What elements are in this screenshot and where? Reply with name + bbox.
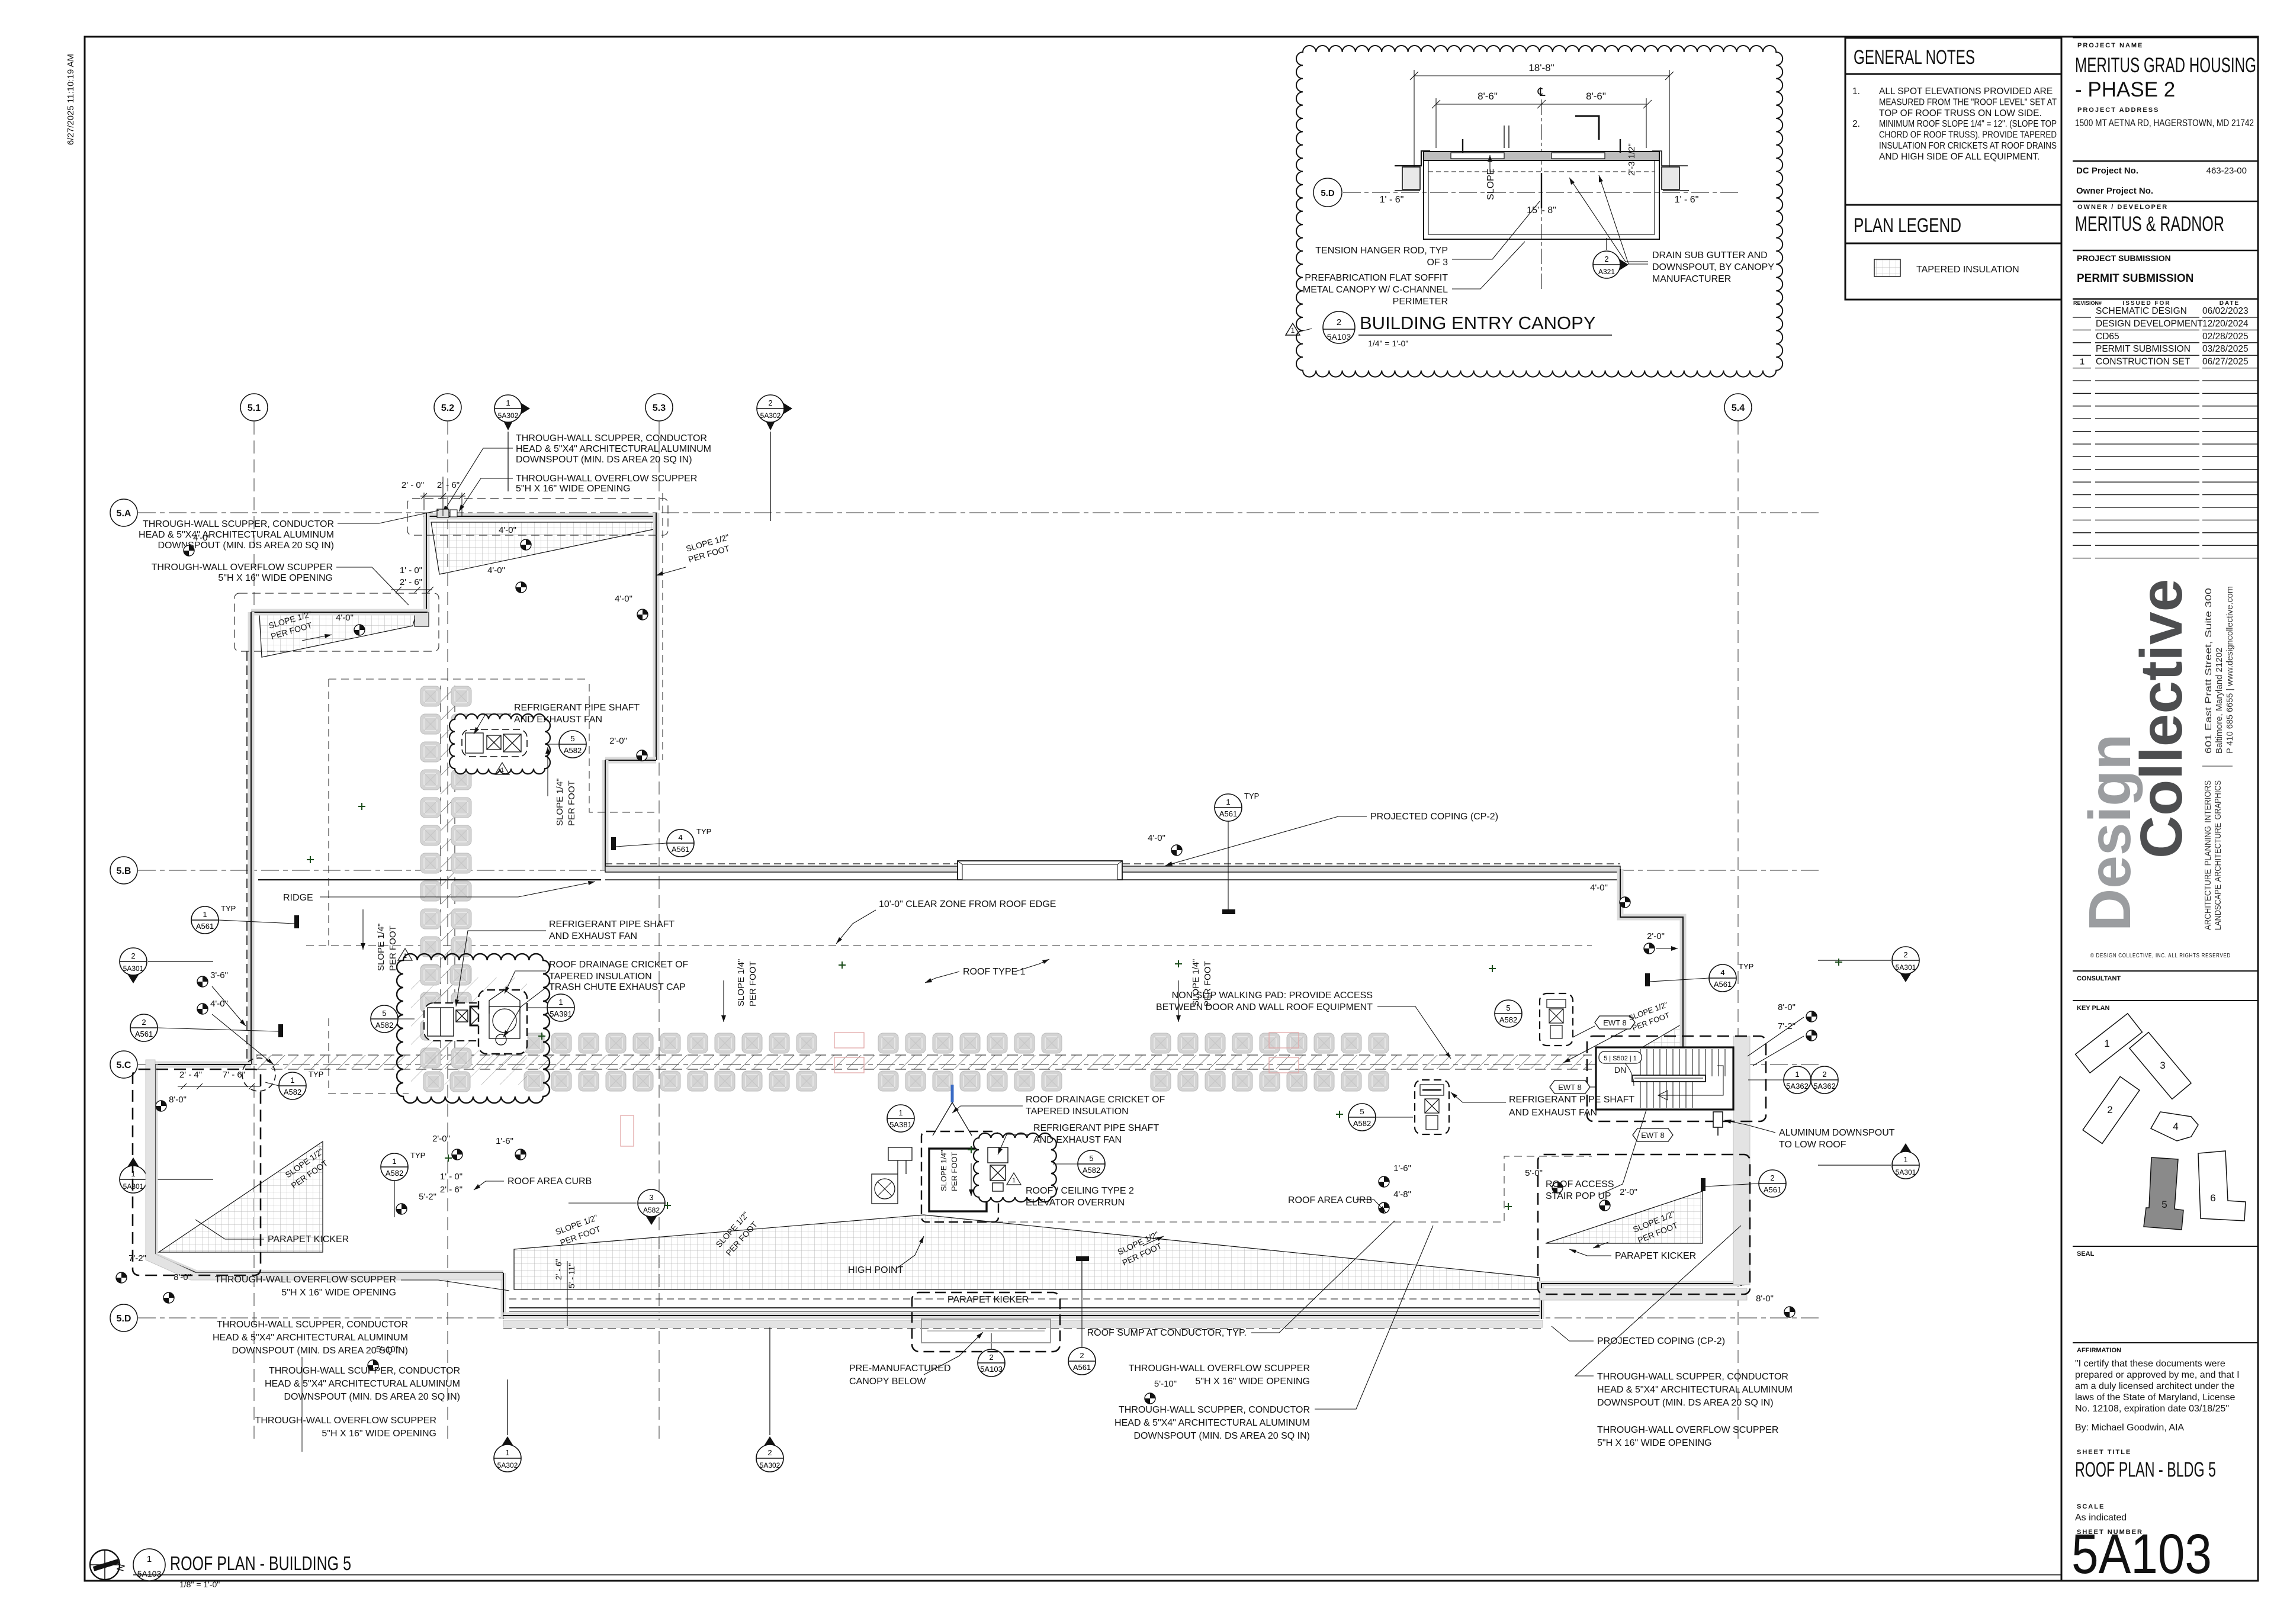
svg-text:2'-0": 2'-0" bbox=[1620, 1187, 1637, 1197]
marker 5/A582 right b bbox=[1348, 1104, 1376, 1131]
svg-text:Collective: Collective bbox=[2128, 579, 2195, 858]
scupper opening symbols on north wall bbox=[437, 509, 449, 517]
svg-text:4'-0": 4'-0" bbox=[1148, 833, 1165, 843]
markers 1/5A362 2/5A362 bbox=[1784, 1066, 1811, 1094]
svg-text:1: 1 bbox=[898, 1108, 902, 1117]
marker 2/A561 left bbox=[130, 1014, 158, 1041]
svg-text:ROOF / CEILING TYPE 2: ROOF / CEILING TYPE 2 bbox=[1026, 1186, 1134, 1196]
svg-text:HEAD & 5"X4" ARCHITECTURAL ALU: HEAD & 5"X4" ARCHITECTURAL ALUMINUM bbox=[516, 444, 711, 454]
canopy body outline bbox=[1424, 160, 1659, 239]
svg-text:8'-0": 8'-0" bbox=[1778, 1002, 1796, 1012]
canopy detail title bbox=[1323, 311, 1355, 343]
svg-text:5A302: 5A302 bbox=[760, 1461, 781, 1469]
svg-text:MERITUS GRAD HOUSING: MERITUS GRAD HOUSING bbox=[2075, 54, 2256, 77]
svg-text:SCHEMATIC DESIGN: SCHEMATIC DESIGN bbox=[2096, 306, 2187, 316]
svg-text:2: 2 bbox=[989, 1353, 993, 1362]
svg-text:As indicated: As indicated bbox=[2075, 1513, 2127, 1523]
svg-text:ROOF DRAINAGE CRICKET OF: ROOF DRAINAGE CRICKET OF bbox=[1026, 1095, 1165, 1105]
spot elevation 5'-10" bbox=[1145, 1393, 1155, 1404]
svg-text:A582: A582 bbox=[284, 1088, 301, 1096]
svg-text:DOWNSPOUT, BY CANOPY: DOWNSPOUT, BY CANOPY bbox=[1652, 262, 1774, 272]
spot elevation 5'-2" bbox=[396, 1204, 407, 1214]
parapet wall jog at NE wing bbox=[605, 757, 656, 764]
walking pad band horizontal bbox=[256, 1055, 1592, 1069]
parapet wall west of NE wing bbox=[423, 513, 430, 612]
svg-text:OF 3: OF 3 bbox=[1427, 258, 1448, 268]
svg-text:5A362: 5A362 bbox=[1813, 1082, 1836, 1091]
tapered insulation band south wing bbox=[514, 1215, 1540, 1289]
svg-text:4'-0": 4'-0" bbox=[615, 594, 632, 604]
svg-text:ALUMINUM DOWNSPOUT: ALUMINUM DOWNSPOUT bbox=[1779, 1128, 1895, 1138]
spot elevation 2'-0" bbox=[1599, 1200, 1610, 1211]
svg-text:06/27/2025: 06/27/2025 bbox=[2202, 357, 2249, 367]
svg-text:1.: 1. bbox=[1852, 86, 1860, 97]
svg-text:5A103: 5A103 bbox=[1327, 332, 1351, 342]
marker 1/A582 south bbox=[381, 1151, 425, 1181]
svg-text:LANDSCAPE ARCHITECTURE GRAPHI: LANDSCAPE ARCHITECTURE GRAPHICS bbox=[2213, 780, 2223, 930]
svg-text:ALL SPOT ELEVATIONS PROVIDED A: ALL SPOT ELEVATIONS PROVIDED ARE bbox=[1879, 86, 2053, 97]
svg-text:THROUGH-WALL SCUPPER, CONDUCTO: THROUGH-WALL SCUPPER, CONDUCTOR bbox=[1119, 1405, 1310, 1415]
elevator overrun bbox=[929, 1149, 987, 1211]
svg-text:EWT 8: EWT 8 bbox=[1603, 1018, 1627, 1027]
svg-text:PARAPET KICKER: PARAPET KICKER bbox=[1615, 1251, 1696, 1261]
svg-text:TOP OF ROOF TRUSS ON LOW SIDE.: TOP OF ROOF TRUSS ON LOW SIDE. bbox=[1879, 108, 2042, 118]
svg-text:DC Project No.: DC Project No. bbox=[2076, 166, 2138, 176]
tension hanger rods bbox=[1541, 173, 1542, 208]
svg-text:5A301: 5A301 bbox=[123, 964, 144, 973]
svg-text:PROJECT ADDRESS: PROJECT ADDRESS bbox=[2077, 107, 2159, 114]
svg-text:MEASURED FROM THE "ROOF LEVEL": MEASURED FROM THE "ROOF LEVEL" SET AT bbox=[1879, 98, 2057, 108]
svg-text:SLOPE: SLOPE bbox=[1486, 169, 1496, 200]
svg-text:No. 12108, expiration date 03/: No. 12108, expiration date 03/18/25" bbox=[2075, 1404, 2229, 1414]
svg-text:1' - 0": 1' - 0" bbox=[400, 565, 422, 575]
svg-text:TAPERED INSULATION: TAPERED INSULATION bbox=[1916, 265, 2019, 275]
slope 1/4 arrows vertical bbox=[547, 747, 548, 796]
svg-text:2: 2 bbox=[767, 1448, 772, 1457]
svg-text:A582: A582 bbox=[1083, 1166, 1100, 1175]
dashed coping line east of NE wing bbox=[662, 493, 663, 760]
bold dashed box SE wing bbox=[1538, 1155, 1750, 1294]
bold dashed box around stair bbox=[1587, 1036, 1766, 1121]
svg-text:1' - 6": 1' - 6" bbox=[1380, 195, 1404, 205]
svg-text:STAIR POP UP: STAIR POP UP bbox=[1546, 1191, 1611, 1201]
svg-text:1: 1 bbox=[147, 1554, 152, 1564]
svg-text:A582: A582 bbox=[643, 1206, 660, 1214]
parapet wall north of NE wing bbox=[423, 513, 656, 520]
title block bbox=[2061, 37, 2063, 1581]
title bubble 1/5A103 bbox=[133, 1549, 165, 1581]
east coping wide band bbox=[1733, 1036, 1750, 1285]
svg-text:5: 5 bbox=[1506, 1004, 1510, 1012]
svg-text:MANUFACTURER: MANUFACTURER bbox=[1652, 274, 1731, 284]
svg-text:4: 4 bbox=[678, 833, 682, 842]
revision table bbox=[2073, 298, 2258, 300]
svg-text:CANOPY BELOW: CANOPY BELOW bbox=[849, 1377, 926, 1387]
svg-text:8'-0": 8'-0" bbox=[174, 1272, 191, 1282]
svg-text:PER FOOT: PER FOOT bbox=[748, 961, 758, 1006]
svg-text:A561: A561 bbox=[1714, 980, 1732, 989]
svg-text:SLOPE 1/4": SLOPE 1/4" bbox=[939, 1150, 948, 1191]
section marker 1/5A302 bottom bbox=[494, 1436, 521, 1472]
svg-text:TAPERED INSULATION: TAPERED INSULATION bbox=[1026, 1107, 1129, 1117]
parapet wall SE step bbox=[1541, 1284, 1741, 1319]
svg-text:"I certify that these document: "I certify that these documents were bbox=[2075, 1359, 2225, 1369]
spot elevation 4'-0" bbox=[516, 582, 526, 593]
svg-text:TO LOW ROOF: TO LOW ROOF bbox=[1779, 1140, 1846, 1150]
svg-text:2: 2 bbox=[1770, 1173, 1774, 1182]
roof access stair pop up bbox=[1596, 1047, 1733, 1110]
svg-text:5A362: 5A362 bbox=[1786, 1082, 1809, 1091]
canopy deck band with hatch bbox=[1424, 152, 1659, 160]
svg-text:TYP: TYP bbox=[1244, 792, 1259, 800]
svg-text:A561: A561 bbox=[1764, 1185, 1781, 1194]
svg-text:DOWNSPOUT (MIN. DS AREA 20 SQ: DOWNSPOUT (MIN. DS AREA 20 SQ IN) bbox=[1133, 1431, 1310, 1441]
svg-text:SLOPE 1/4": SLOPE 1/4" bbox=[736, 959, 746, 1006]
svg-text:GENERAL NOTES: GENERAL NOTES bbox=[1854, 46, 1975, 69]
svg-text:1/8" = 1'-0": 1/8" = 1'-0" bbox=[179, 1580, 220, 1589]
svg-text:4: 4 bbox=[1720, 968, 1724, 977]
svg-text:TYP: TYP bbox=[221, 904, 236, 913]
svg-text:PROJECTED COPING (CP-2): PROJECTED COPING (CP-2) bbox=[1370, 812, 1498, 822]
marker 5/A582 upper bbox=[559, 731, 586, 758]
svg-text:PER FOOT: PER FOOT bbox=[388, 925, 398, 971]
spot elevation 8'-0" bbox=[156, 1101, 166, 1111]
svg-text:THROUGH-WALL SCUPPER, CONDUCTO: THROUGH-WALL SCUPPER, CONDUCTOR bbox=[516, 433, 707, 443]
svg-text:2: 2 bbox=[1080, 1351, 1084, 1360]
tapered insulation wedge NW-right bbox=[431, 522, 654, 574]
EWT 8 tag a bbox=[1595, 1016, 1635, 1029]
svg-text:HEAD & 5"X4" ARCHITECTURAL ALU: HEAD & 5"X4" ARCHITECTURAL ALUMINUM bbox=[139, 530, 334, 540]
svg-text:1: 1 bbox=[2080, 357, 2084, 367]
svg-text:1500 MT AETNA RD, HAGERSTOWN,: 1500 MT AETNA RD, HAGERSTOWN, MD 21742 bbox=[2075, 118, 2254, 128]
marker 1/A561 top bbox=[1215, 792, 1259, 821]
marker 5/A582 central bbox=[371, 1005, 398, 1033]
svg-text:601 East Pratt Street, Suite 3: 601 East Pratt Street, Suite 300 bbox=[2204, 588, 2214, 754]
svg-text:SHEET TITLE: SHEET TITLE bbox=[2077, 1449, 2131, 1456]
svg-text:2: 2 bbox=[2107, 1104, 2112, 1115]
svg-text:PLAN LEGEND: PLAN LEGEND bbox=[1854, 214, 1961, 237]
svg-text:5A391: 5A391 bbox=[550, 1009, 572, 1018]
svg-text:AND HIGH SIDE OF ALL EQUIPMENT: AND HIGH SIDE OF ALL EQUIPMENT. bbox=[1879, 152, 2040, 162]
svg-text:AFFIRMATION: AFFIRMATION bbox=[2077, 1347, 2121, 1354]
spot elevation 4'-0" bbox=[1620, 897, 1630, 908]
svg-text:2'-0": 2'-0" bbox=[1647, 931, 1665, 941]
svg-text:AND EXHAUST FAN: AND EXHAUST FAN bbox=[514, 715, 602, 725]
svg-text:5"H X 16" WIDE OPENING: 5"H X 16" WIDE OPENING bbox=[322, 1429, 436, 1439]
spot elevation 8'-0" bbox=[1784, 1307, 1795, 1317]
stair run arrow bbox=[1658, 1066, 1723, 1095]
svg-text:- PHASE 2: - PHASE 2 bbox=[2075, 78, 2175, 101]
marker 1/A582 SW bbox=[279, 1070, 323, 1099]
upper equipment cloud bbox=[449, 714, 550, 774]
svg-text:5.1: 5.1 bbox=[248, 403, 261, 413]
svg-text:TRASH CHUTE EXHAUST CAP: TRASH CHUTE EXHAUST CAP bbox=[549, 982, 686, 992]
svg-text:am a duly licensed architect u: am a duly licensed architect under the bbox=[2075, 1381, 2235, 1391]
svg-text:2' - 6": 2' - 6" bbox=[440, 1185, 462, 1195]
svg-text:4'-0": 4'-0" bbox=[210, 999, 228, 1009]
grid 5.D through detail bbox=[1343, 192, 1741, 193]
svg-text:1' - 6": 1' - 6" bbox=[1675, 195, 1699, 205]
revision delta 1 bbox=[1286, 323, 1300, 335]
svg-text:ROOF SUMP AT CONDUCTOR, TYP.: ROOF SUMP AT CONDUCTOR, TYP. bbox=[1087, 1328, 1247, 1338]
svg-text:1: 1 bbox=[1903, 1155, 1907, 1164]
svg-text:TAPERED INSULATION: TAPERED INSULATION bbox=[549, 972, 652, 982]
svg-text:DRAIN SUB GUTTER AND: DRAIN SUB GUTTER AND bbox=[1652, 250, 1768, 261]
svg-text:1: 1 bbox=[203, 910, 207, 919]
svg-text:02/28/2025: 02/28/2025 bbox=[2202, 332, 2249, 342]
svg-text:DN: DN bbox=[1614, 1065, 1626, 1075]
grid line 5.2 bbox=[447, 422, 448, 1445]
svg-text:NON-SLIP WALKING PAD: PROVIDE: NON-SLIP WALKING PAD: PROVIDE ACCESS bbox=[1172, 991, 1373, 1001]
svg-text:15' - 8": 15' - 8" bbox=[1527, 205, 1556, 216]
svg-text:A582: A582 bbox=[1499, 1015, 1517, 1024]
small wall symbols above deck bbox=[1504, 126, 1509, 148]
svg-text:5 | S502 | 1: 5 | S502 | 1 bbox=[1604, 1055, 1637, 1062]
parapet wall east of NE wing bbox=[653, 513, 660, 760]
svg-text:2: 2 bbox=[142, 1018, 146, 1027]
grid line 5.1 bbox=[253, 422, 255, 1445]
svg-text:THROUGH-WALL OVERFLOW SCUPPER: THROUGH-WALL OVERFLOW SCUPPER bbox=[1597, 1425, 1778, 1435]
svg-text:5'-10": 5'-10" bbox=[1154, 1379, 1177, 1389]
svg-text:5A301: 5A301 bbox=[1896, 963, 1916, 972]
svg-text:5.D: 5.D bbox=[1321, 188, 1335, 198]
svg-text:1: 1 bbox=[2104, 1038, 2109, 1049]
key plan building 3 bbox=[2130, 1033, 2191, 1099]
parapet wall SW wing bbox=[155, 1065, 503, 1273]
section marker 2/5A301 left bbox=[120, 948, 147, 983]
svg-text:4'-0": 4'-0" bbox=[1590, 883, 1608, 893]
section marker 1/5A301 left bbox=[120, 1157, 147, 1193]
svg-text:5A103: 5A103 bbox=[2071, 1523, 2212, 1586]
canopy roof/wall section at grid 5.D bbox=[1395, 151, 1689, 191]
svg-text:HEAD & 5"X4" ARCHITECTURAL ALU: HEAD & 5"X4" ARCHITECTURAL ALUMINUM bbox=[1114, 1418, 1310, 1428]
section marker 2/5A302 bottom bbox=[756, 1436, 783, 1472]
svg-text:A582: A582 bbox=[1353, 1119, 1371, 1128]
leader line to bottom marker SW bbox=[301, 1357, 303, 1452]
svg-text:TYP: TYP bbox=[410, 1151, 425, 1160]
svg-text:AND EXHAUST FAN: AND EXHAUST FAN bbox=[1509, 1108, 1597, 1118]
EWT 8 tag c bbox=[1633, 1128, 1673, 1141]
svg-text:MINIMUM ROOF SLOPE 1/4" = 12".: MINIMUM ROOF SLOPE 1/4" = 12". (SLOPE TO… bbox=[1879, 119, 2057, 129]
svg-text:DOWNSPOUT (MIN. DS AREA 20 SQ: DOWNSPOUT (MIN. DS AREA 20 SQ IN) bbox=[516, 455, 692, 465]
section marker 1/5A302 top bbox=[494, 395, 530, 430]
svg-text:12/20/2024: 12/20/2024 bbox=[2202, 319, 2249, 329]
svg-text:CD65: CD65 bbox=[2096, 332, 2119, 342]
marker 1/A561 far left bbox=[191, 904, 236, 934]
cricket pyramid at elevator bbox=[933, 1102, 972, 1136]
svg-text:TYP: TYP bbox=[696, 827, 711, 836]
svg-text:ROOF ACCESS: ROOF ACCESS bbox=[1546, 1179, 1614, 1189]
spot elevation 4'-0" bbox=[521, 539, 531, 550]
spot elevation 1'-6" bbox=[1379, 1176, 1389, 1187]
survey plus marks bbox=[307, 803, 1842, 1210]
svg-text:laws of the State of Maryland,: laws of the State of Maryland, License bbox=[2075, 1393, 2235, 1403]
key plan building 6 bbox=[2198, 1151, 2246, 1221]
svg-text:5.C: 5.C bbox=[117, 1060, 131, 1070]
svg-text:8'-6": 8'-6" bbox=[1586, 91, 1606, 102]
svg-text:5: 5 bbox=[570, 734, 574, 743]
svg-text:2: 2 bbox=[1822, 1070, 1826, 1079]
svg-text:5.3: 5.3 bbox=[653, 403, 666, 413]
tapered insulation wedge NW-left bbox=[259, 615, 416, 657]
svg-text:THROUGH-WALL SCUPPER, CONDUCTO: THROUGH-WALL SCUPPER, CONDUCTOR bbox=[1597, 1372, 1788, 1382]
svg-text:5.2: 5.2 bbox=[441, 403, 454, 413]
revision delta at central cloud bbox=[398, 948, 412, 960]
svg-text:ROOF DRAINAGE CRICKET OF: ROOF DRAINAGE CRICKET OF bbox=[549, 960, 689, 970]
svg-text:© DESIGN COLLECTIVE, INC. ALL: © DESIGN COLLECTIVE, INC. ALL RIGHTS RES… bbox=[2090, 952, 2231, 959]
parapet wall north of west wing bbox=[251, 609, 428, 616]
svg-text:5A103: 5A103 bbox=[137, 1569, 162, 1578]
svg-text:A561: A561 bbox=[1073, 1363, 1091, 1372]
svg-text:PERMIT SUBMISSION: PERMIT SUBMISSION bbox=[2096, 344, 2191, 354]
svg-text:A582: A582 bbox=[564, 746, 582, 755]
grid bubble 5.1 bbox=[240, 394, 268, 421]
svg-text:2' - 0": 2' - 0" bbox=[402, 480, 424, 490]
grid line 5.D bbox=[138, 1317, 1821, 1319]
parapet kicker label south (in dashed canopy box) bbox=[912, 1292, 1060, 1352]
svg-text:AND EXHAUST FAN: AND EXHAUST FAN bbox=[549, 931, 637, 941]
svg-text:2' - 6": 2' - 6" bbox=[554, 1259, 563, 1280]
svg-text:4'-0": 4'-0" bbox=[193, 533, 211, 543]
grid line 5.4 bbox=[1737, 422, 1739, 1445]
dashed equipment box right a bbox=[1540, 993, 1573, 1046]
svg-text:6: 6 bbox=[2210, 1192, 2215, 1204]
svg-text:5'-0": 5'-0" bbox=[1525, 1168, 1543, 1178]
scupper block west wing bbox=[415, 611, 429, 626]
section marker 2/A321 bbox=[1593, 251, 1629, 278]
svg-text:Owner Project No.: Owner Project No. bbox=[2076, 186, 2153, 196]
spot elevation 3'-6" bbox=[197, 976, 208, 987]
svg-text:4'-0": 4'-0" bbox=[336, 613, 354, 623]
svg-text:1: 1 bbox=[1795, 1070, 1799, 1079]
svg-text:REFRIGERANT PIPE SHAFT: REFRIGERANT PIPE SHAFT bbox=[1509, 1095, 1634, 1105]
svg-text:1: 1 bbox=[1012, 1177, 1016, 1184]
svg-text:THROUGH-WALL SCUPPER, CONDUCTO: THROUGH-WALL SCUPPER, CONDUCTOR bbox=[269, 1366, 460, 1376]
bold dashed box SW wing bbox=[133, 1069, 261, 1275]
svg-text:1: 1 bbox=[392, 1157, 396, 1166]
parapet wall west side bbox=[248, 612, 255, 1065]
spot elevation 7'-2" bbox=[1806, 1030, 1817, 1041]
spot elevation 4'-8" bbox=[1379, 1202, 1389, 1213]
svg-text:5"H X 16" WIDE OPENING: 5"H X 16" WIDE OPENING bbox=[1195, 1377, 1310, 1387]
svg-text:4'-0": 4'-0" bbox=[487, 565, 505, 575]
parapet kicker dashed line south bbox=[509, 1298, 1540, 1300]
svg-text:THROUGH-WALL OVERFLOW SCUPPER: THROUGH-WALL OVERFLOW SCUPPER bbox=[516, 474, 697, 484]
equipment pad column along vertical corridor bbox=[420, 686, 441, 706]
svg-text:PROJECT SUBMISSION: PROJECT SUBMISSION bbox=[2077, 253, 2171, 263]
svg-text:1'-6": 1'-6" bbox=[496, 1136, 513, 1146]
svg-text:1: 1 bbox=[1291, 326, 1295, 335]
key plan building 2 bbox=[2083, 1076, 2140, 1143]
svg-text:EWT 8: EWT 8 bbox=[1558, 1083, 1582, 1092]
dashed zone south bbox=[983, 1156, 1592, 1222]
svg-text:4'-0": 4'-0" bbox=[499, 525, 516, 535]
dashed kicker box upper-left A bbox=[407, 499, 668, 535]
svg-text:3: 3 bbox=[649, 1193, 653, 1202]
central equipment cloud bbox=[397, 954, 550, 1103]
svg-text:ARCHITECTURE PLANNING INTERI: ARCHITECTURE PLANNING INTERIORS bbox=[2203, 780, 2213, 930]
svg-text:2' - 6": 2' - 6" bbox=[400, 577, 422, 587]
svg-text:HIGH POINT: HIGH POINT bbox=[848, 1265, 904, 1275]
refrigerant cloud at elevator bbox=[974, 1133, 1056, 1202]
svg-text:2'-0": 2'-0" bbox=[432, 1134, 450, 1144]
svg-text:EWT 8: EWT 8 bbox=[1641, 1131, 1665, 1140]
grid line 5.A bbox=[138, 512, 1821, 513]
tapered insulation wedge SE bbox=[1546, 1191, 1703, 1243]
svg-text:By: Michael Goodwin, AIA: By: Michael Goodwin, AIA bbox=[2075, 1423, 2184, 1433]
spot elevation 4'-0" bbox=[1171, 845, 1182, 856]
svg-text:2: 2 bbox=[1903, 950, 1907, 959]
svg-text:4'-8": 4'-8" bbox=[1393, 1189, 1411, 1199]
spot elevation 4'-0" bbox=[354, 625, 365, 635]
svg-text:5A103: 5A103 bbox=[980, 1365, 1003, 1374]
svg-text:5.A: 5.A bbox=[117, 509, 131, 519]
marker 2/A561 right bbox=[1759, 1170, 1786, 1197]
marker 1/5A381 bbox=[887, 1105, 914, 1132]
svg-text:SLOPE 1/4": SLOPE 1/4" bbox=[376, 924, 386, 971]
marker 2/A561 south bbox=[1068, 1348, 1096, 1375]
spot elevation 2'-0" bbox=[1644, 943, 1655, 954]
section marker 1/5A301 right bbox=[1892, 1143, 1919, 1179]
svg-text:REFRIGERANT PIPE SHAFT: REFRIGERANT PIPE SHAFT bbox=[514, 703, 640, 713]
svg-text:PARAPET KICKER: PARAPET KICKER bbox=[947, 1295, 1029, 1305]
bold dashed box around elevator overrun bbox=[921, 1131, 998, 1222]
svg-text:1' - 0": 1' - 0" bbox=[440, 1172, 462, 1182]
canopy dim 18ft-8in bbox=[1410, 70, 1674, 189]
svg-text:2.: 2. bbox=[1852, 119, 1860, 129]
svg-text:5.D: 5.D bbox=[117, 1314, 131, 1324]
svg-text:5A301: 5A301 bbox=[1896, 1168, 1916, 1176]
trash chute dashed box bbox=[478, 990, 527, 1054]
svg-text:1: 1 bbox=[403, 953, 407, 960]
svg-text:ROOF AREA CURB: ROOF AREA CURB bbox=[508, 1176, 592, 1186]
svg-text:REFRIGERANT PIPE SHAFT: REFRIGERANT PIPE SHAFT bbox=[1033, 1123, 1159, 1133]
svg-text:7'-2": 7'-2" bbox=[1778, 1021, 1796, 1031]
svg-text:5.4: 5.4 bbox=[1732, 403, 1745, 413]
canopy dim 8ft-6in pair bbox=[1432, 98, 1652, 148]
svg-text:5' - 11": 5' - 11" bbox=[567, 1263, 576, 1288]
aluminum downspout symbol bbox=[1713, 1112, 1723, 1127]
pads inside cloud bbox=[420, 965, 441, 985]
svg-text:DOWNSPOUT (MIN. DS AREA 20 SQ: DOWNSPOUT (MIN. DS AREA 20 SQ IN) bbox=[232, 1346, 408, 1356]
ridge line bbox=[258, 879, 601, 880]
marker 4/A561 right bbox=[1709, 962, 1753, 992]
svg-text:CONSTRUCTION SET: CONSTRUCTION SET bbox=[2096, 357, 2191, 367]
spot elevation 1'-6" bbox=[515, 1149, 526, 1160]
svg-text:5'-2": 5'-2" bbox=[419, 1192, 436, 1202]
svg-text:THROUGH-WALL OVERFLOW SCUPPER: THROUGH-WALL OVERFLOW SCUPPER bbox=[1129, 1363, 1310, 1374]
equipment in central cloud bbox=[424, 1003, 499, 1041]
svg-text:TENSION HANGER ROD, TYP: TENSION HANGER ROD, TYP bbox=[1315, 246, 1448, 256]
parapet wall east of west wing bbox=[602, 760, 609, 870]
svg-text:PROJECT NAME: PROJECT NAME bbox=[2077, 42, 2143, 49]
svg-text:1: 1 bbox=[505, 1448, 509, 1457]
svg-text:Baltimore, Maryland 21202: Baltimore, Maryland 21202 bbox=[2214, 648, 2224, 754]
dim 5-11 2-6 vertical ticks bbox=[567, 1261, 568, 1326]
parapet wall east side bbox=[1738, 1110, 1745, 1286]
svg-text:5A302: 5A302 bbox=[498, 411, 519, 420]
spot elevation 2'-0" bbox=[637, 750, 647, 761]
spot elevation 4'-0" bbox=[197, 1004, 208, 1014]
walking pad corridor vertical bbox=[441, 686, 455, 1057]
svg-text:THROUGH-WALL OVERFLOW SCUPPER: THROUGH-WALL OVERFLOW SCUPPER bbox=[215, 1275, 396, 1285]
svg-text:8'-6": 8'-6" bbox=[1478, 91, 1498, 102]
svg-text:BUILDING ENTRY CANOPY: BUILDING ENTRY CANOPY bbox=[1360, 313, 1596, 333]
tapered insulation legend symbol bbox=[1874, 259, 1900, 276]
svg-text:5: 5 bbox=[382, 1009, 386, 1018]
svg-text:2' - 6": 2' - 6" bbox=[437, 480, 460, 490]
svg-text:3'-6": 3'-6" bbox=[210, 970, 228, 980]
